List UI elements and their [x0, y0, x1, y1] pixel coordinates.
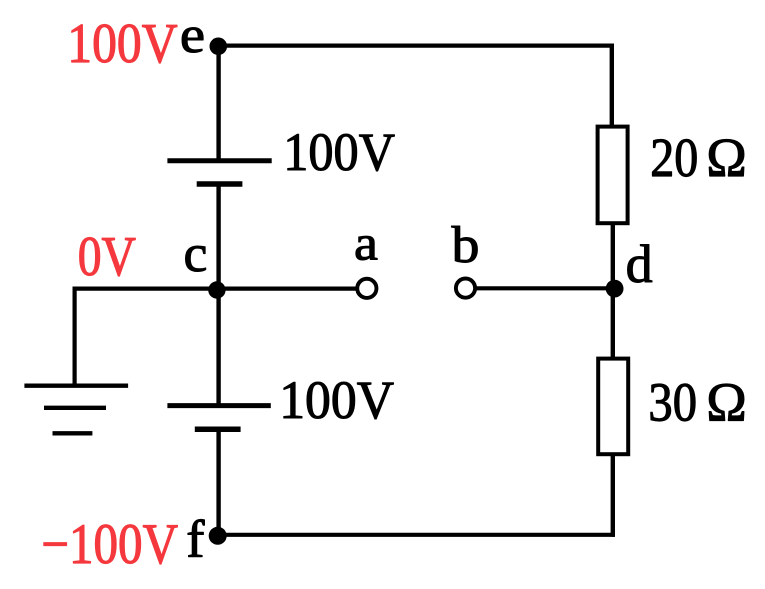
- battery B2 short plate: [195, 426, 241, 432]
- label 100V red top-left: [67, 13, 177, 74]
- svg-text:Ω: Ω: [706, 126, 746, 188]
- battery B1 short plate: [197, 181, 243, 187]
- node d junction dot: [606, 280, 624, 298]
- resistor R2 30ohm body: [598, 359, 628, 455]
- svg-text:100V: 100V: [279, 371, 394, 430]
- node f junction dot: [209, 527, 227, 545]
- wire left rail: node c to battery B2: [216, 289, 220, 405]
- node e junction dot: [210, 38, 228, 56]
- wire right rail: R1 to node d: [611, 223, 615, 290]
- label 100V battery B2: [279, 371, 394, 430]
- terminal b open circle: [456, 279, 475, 298]
- wire right rail upper: corner to resistor R1: [610, 44, 614, 128]
- resistor R1 20ohm body: [598, 127, 628, 224]
- label -100V red bottom-left: [41, 514, 178, 576]
- label d node: [626, 234, 653, 294]
- battery B2 long plate: [167, 403, 270, 408]
- svg-text:d: d: [626, 234, 653, 294]
- svg-text:Ω: Ω: [706, 371, 746, 433]
- wire left rail: e to battery B1 top plate: [216, 44, 220, 160]
- label 20 value: [650, 128, 698, 189]
- svg-text:f: f: [186, 509, 204, 568]
- svg-text:30: 30: [648, 373, 697, 434]
- label a terminal: [354, 216, 378, 271]
- wire left rail: B1 to node c: [216, 184, 220, 290]
- label f node: [186, 509, 204, 568]
- label b terminal: [452, 216, 480, 274]
- label ohm symbol R2: [706, 371, 746, 433]
- svg-text:e: e: [180, 6, 205, 63]
- label ohm symbol R1: [706, 126, 746, 188]
- battery B1 long plate: [167, 158, 271, 163]
- wire middle left: node c to ground branch corner: [73, 287, 219, 291]
- ground bar 3: [53, 431, 93, 435]
- svg-text:−100V: −100V: [41, 514, 178, 576]
- wire left rail: B2 to node f: [216, 429, 220, 536]
- wire node c to terminal a: [218, 287, 358, 291]
- label c node: [184, 225, 208, 282]
- svg-text:100V: 100V: [67, 13, 177, 74]
- label 30 value: [648, 373, 697, 434]
- wire right rail lower: R2 to bottom corner: [611, 454, 615, 537]
- label 100V battery B1: [283, 123, 395, 182]
- label e node: [180, 6, 205, 63]
- svg-text:100V: 100V: [283, 123, 395, 182]
- ground bar 2: [44, 406, 106, 410]
- svg-text:20: 20: [650, 128, 698, 189]
- svg-text:b: b: [452, 216, 480, 274]
- wire right rail: node d to resistor R2: [611, 288, 615, 358]
- wire top: e to top-right corner: [218, 43, 614, 47]
- wire ground stub vertical: [72, 287, 76, 386]
- ground bar 1: [24, 384, 128, 388]
- terminal a open circle: [357, 279, 376, 298]
- wire terminal b to node d: [475, 286, 613, 290]
- svg-text:c: c: [184, 225, 208, 282]
- svg-text:0V: 0V: [78, 226, 137, 287]
- svg-text:a: a: [354, 216, 378, 271]
- wire bottom: f to bottom-right corner: [218, 533, 615, 537]
- node c junction dot: [208, 281, 225, 298]
- label 0V red: [78, 226, 137, 287]
